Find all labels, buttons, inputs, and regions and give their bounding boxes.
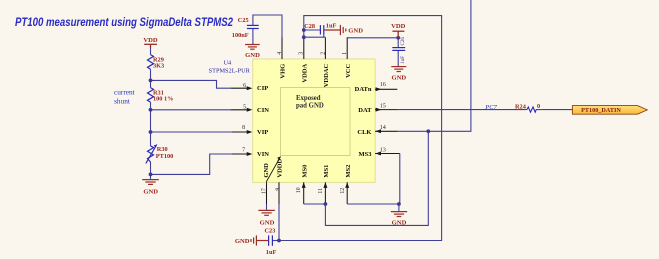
- node C28 lead junction: [302, 28, 306, 32]
- svg-text:11: 11: [318, 188, 324, 194]
- svg-text:PC7: PC7: [484, 104, 497, 111]
- node CLK/MS1 junction: [426, 129, 430, 133]
- svg-text:MS1: MS1: [323, 165, 330, 178]
- wire MS1 to CLK net: [325, 131, 428, 225]
- pin 8 input arrow: [247, 130, 253, 134]
- svg-text:GND: GND: [235, 238, 250, 245]
- svg-text:10: 10: [296, 187, 302, 193]
- wire MS3 down to ground node: [398, 154, 401, 205]
- svg-text:VCC: VCC: [345, 64, 352, 78]
- pin 13 lead: [375, 153, 400, 155]
- wire jog pin 3 to pin 2: [304, 36, 326, 38]
- ground for MS2/MS3: [391, 212, 407, 227]
- svg-text:1uF: 1uF: [326, 23, 337, 30]
- pin 14 input arrow: [375, 129, 381, 133]
- pin 11 input arrow: [323, 182, 327, 188]
- ground under R30: [142, 180, 159, 196]
- svg-text:STPMS2L-PUR: STPMS2L-PUR: [209, 67, 251, 74]
- svg-text:PT100: PT100: [156, 153, 174, 160]
- wire C28 right plate to pin 2 jog: [323, 35, 325, 38]
- wire C25 top to pin 4 (VHG rail): [253, 15, 282, 38]
- wire R31 to R30: [150, 102, 152, 146]
- pin 7 input arrow: [247, 152, 253, 156]
- svg-text:7: 7: [242, 147, 245, 153]
- svg-text:CIP: CIP: [257, 85, 268, 92]
- pin 15 output arrow: [376, 108, 382, 112]
- svg-text:R24: R24: [515, 103, 527, 110]
- pin 11 lead: [324, 182, 326, 204]
- svg-text:MS2: MS2: [345, 165, 352, 178]
- ground under C25: [245, 45, 260, 59]
- capacitor C23: [269, 235, 273, 245]
- svg-text:shunt: shunt: [114, 97, 130, 106]
- resistor R31: [148, 88, 154, 103]
- pin 15 lead: [375, 109, 397, 111]
- svg-text:VDDD: VDDD: [277, 159, 284, 178]
- svg-text:GND: GND: [263, 163, 270, 178]
- capacitor C25: [247, 25, 259, 28]
- pin 7 lead: [231, 153, 248, 155]
- node R30 top junction: [149, 130, 153, 134]
- pin 12 input arrow: [345, 182, 349, 188]
- wire VCC to VDD node: [347, 37, 398, 39]
- wire DAT to R24: [397, 109, 527, 111]
- svg-text:MS0: MS0: [301, 165, 308, 178]
- svg-text:VDD: VDD: [391, 23, 406, 30]
- wire R30 bottom node to VIN: [151, 154, 233, 174]
- pin 16 lead: [375, 88, 397, 90]
- pin 12 lead: [346, 182, 348, 204]
- resistor R29: [148, 55, 154, 70]
- node pin9/C23 junction: [277, 239, 281, 243]
- svg-text:GND: GND: [245, 52, 260, 59]
- svg-text:GND: GND: [348, 28, 363, 35]
- resistor R30 PT100 sensor: [146, 145, 157, 164]
- svg-text:3K3: 3K3: [153, 63, 164, 70]
- wire R24 to port flag: [536, 109, 573, 111]
- wire VDD node to capacitor C26: [397, 38, 399, 48]
- svg-text:100nF: 100nF: [232, 32, 249, 39]
- wire R30 top node to VIP: [151, 131, 233, 133]
- svg-text:C28: C28: [304, 23, 315, 30]
- exposed pad to GND pin arrow line: [266, 157, 280, 183]
- wire R29 to R31: [150, 69, 152, 87]
- svg-text:8: 8: [242, 125, 245, 131]
- svg-text:Exposed: Exposed: [296, 95, 321, 102]
- wire VDD to R29: [150, 48, 152, 55]
- svg-text:VDD: VDD: [143, 37, 158, 44]
- IC U4 body: [253, 59, 375, 182]
- pin 5 lead: [231, 109, 248, 111]
- wire shunt node to CIN: [151, 109, 233, 111]
- ground under pin 17: [258, 210, 274, 226]
- node R30 bottom junction: [149, 173, 153, 177]
- svg-text:9: 9: [275, 188, 281, 191]
- svg-text:16: 16: [380, 82, 386, 88]
- pin 1 lead: [346, 37, 348, 59]
- pin 10 lead: [303, 182, 305, 204]
- wire MS0 to MS1: [304, 203, 326, 205]
- svg-text:C26: C26: [401, 37, 406, 46]
- pin 4 lead: [281, 37, 283, 59]
- pin 2 lead: [324, 37, 326, 59]
- wire R30 to ground node: [150, 162, 152, 179]
- svg-text:DATn: DATn: [355, 86, 372, 93]
- capacitor C28: [320, 25, 323, 34]
- svg-text:GND: GND: [392, 219, 407, 226]
- pin 14 lead: [375, 130, 397, 132]
- svg-text:VHG: VHG: [280, 64, 287, 79]
- svg-text:VDDAC: VDDAC: [323, 64, 330, 88]
- svg-text:CLK: CLK: [357, 129, 371, 136]
- wire pin 9 down to C23 net: [278, 204, 280, 241]
- svg-text:current: current: [114, 87, 135, 96]
- pin 3 lead: [303, 37, 305, 59]
- svg-text:12: 12: [340, 188, 346, 194]
- wire C28 left lead to pin 3: [304, 29, 320, 31]
- wire C23 right lead: [273, 240, 279, 242]
- svg-text:C25: C25: [238, 17, 249, 24]
- wire C26 to ground: [397, 50, 399, 66]
- wire ground stem pin 17: [266, 204, 268, 210]
- power port VDD (VCC): [391, 23, 406, 38]
- wire CLK to top edge: [397, 0, 471, 131]
- resistor R24: [527, 107, 536, 112]
- capacitor C26: [392, 48, 405, 51]
- svg-text:DAT: DAT: [358, 107, 372, 114]
- svg-text:CIN: CIN: [257, 107, 269, 114]
- svg-text:0: 0: [537, 103, 540, 110]
- port flag PT100_DATIN: [572, 106, 647, 115]
- svg-text:C23: C23: [265, 228, 276, 235]
- node shunt top junction: [149, 79, 153, 83]
- pin 13 input arrow: [375, 152, 381, 156]
- pin 8 lead: [231, 131, 248, 133]
- pin 9 lead: [278, 182, 280, 204]
- ground under C26: [391, 67, 406, 82]
- node MS0/MS1 junction: [324, 202, 328, 206]
- svg-text:VDDA: VDDA: [301, 63, 308, 82]
- svg-text:GND: GND: [143, 189, 158, 196]
- note current shunt: [114, 87, 135, 105]
- svg-text:U4: U4: [224, 60, 233, 67]
- node shunt bottom junction: [149, 108, 153, 112]
- wire MS2 to ground node: [347, 203, 399, 205]
- svg-text:GND: GND: [391, 75, 406, 82]
- svg-text:VIN: VIN: [257, 151, 269, 158]
- svg-text:MS3: MS3: [359, 151, 373, 158]
- wire C25 bottom to ground: [252, 29, 254, 45]
- svg-text:1uF: 1uF: [266, 249, 277, 256]
- wire ground stem MS2/MS3: [398, 204, 400, 211]
- pin 10 input arrow: [302, 182, 306, 188]
- svg-text:100 1%: 100 1%: [153, 95, 173, 102]
- pin 5 input arrow: [247, 108, 253, 112]
- pin 6 input arrow: [247, 86, 253, 90]
- U4 exposed pad box: [281, 88, 351, 156]
- node pin 3 jog junction: [302, 35, 306, 39]
- pin 6 lead: [231, 87, 248, 89]
- pin 16 output arrow: [376, 87, 382, 91]
- svg-text:PT100 measurement using SigmaD: PT100 measurement using SigmaDelta STPMS…: [15, 15, 233, 29]
- svg-text:GND: GND: [260, 219, 275, 226]
- wire shunt node to CIP: [151, 80, 233, 88]
- node MS2/MS3 ground junction: [397, 202, 401, 206]
- svg-text:pad GND: pad GND: [296, 103, 324, 110]
- ground right of C28: [324, 25, 363, 35]
- svg-text:PT100_DATIN: PT100_DATIN: [581, 107, 621, 114]
- pin 17 lead: [266, 182, 268, 204]
- svg-text:15: 15: [380, 104, 386, 110]
- node VDD junction: [396, 36, 400, 40]
- ground left of C23: [235, 235, 269, 245]
- svg-text:1uF: 1uF: [401, 56, 406, 64]
- wire VDDA rail: pin 3 up, right, down to C23 net: [273, 16, 442, 241]
- power port VDD (shunt): [143, 37, 158, 48]
- svg-text:VIP: VIP: [257, 129, 268, 136]
